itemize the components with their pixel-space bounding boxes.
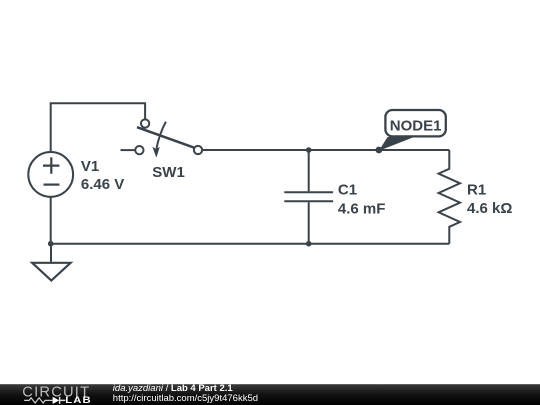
svg-text:http://circuitlab.com/c5jy9t47: http://circuitlab.com/c5jy9t476kk5d bbox=[113, 393, 258, 404]
svg-text:NODE1: NODE1 bbox=[390, 117, 442, 134]
svg-text:V1: V1 bbox=[81, 158, 99, 175]
svg-text:R1: R1 bbox=[467, 182, 486, 199]
svg-text:SW1: SW1 bbox=[152, 164, 185, 181]
voltage source V1 bbox=[28, 152, 73, 197]
footer text bbox=[113, 383, 258, 404]
switch top terminal bbox=[141, 119, 149, 127]
capacitor C1 bbox=[284, 150, 333, 244]
svg-text:LAB: LAB bbox=[65, 396, 91, 405]
footer bar bbox=[0, 384, 540, 405]
wire: V1 top to switch top terminal bbox=[51, 103, 145, 152]
svg-text:4.6 mF: 4.6 mF bbox=[338, 200, 386, 217]
node NODE1 flag bbox=[376, 110, 446, 153]
wire: bottom rail bbox=[51, 243, 450, 245]
switch SW1 bbox=[121, 119, 203, 157]
junction dot: ground node bbox=[48, 241, 54, 247]
switch right terminal bbox=[194, 146, 202, 154]
wire: switch right terminal to top-right corner bbox=[202, 149, 449, 151]
junction dot: capacitor top node bbox=[306, 147, 312, 153]
svg-text:4.6 kΩ: 4.6 kΩ bbox=[467, 200, 512, 217]
junction dot: capacitor bottom node bbox=[306, 241, 312, 247]
resistor R1 bbox=[439, 150, 460, 244]
switch motion arrow bbox=[156, 122, 166, 150]
wire: V1 bottom to ground junction bbox=[50, 197, 52, 244]
CircuitLab logo bbox=[22, 384, 91, 405]
ground bbox=[32, 244, 70, 281]
switch left terminal bbox=[135, 146, 143, 154]
switch blade bbox=[137, 127, 194, 147]
wire stub: open throw terminal bbox=[121, 149, 136, 151]
svg-text:C1: C1 bbox=[338, 182, 357, 199]
svg-text:6.46 V: 6.46 V bbox=[81, 176, 124, 193]
